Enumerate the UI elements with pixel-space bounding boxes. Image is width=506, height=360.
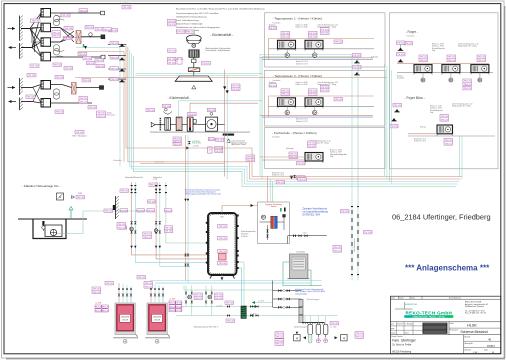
svg-text:TW 120: TW 120 <box>96 29 104 31</box>
svg-text:TW 120: TW 120 <box>65 28 73 30</box>
kitchen risers red/cyan <box>224 70 226 177</box>
svg-text:Name: Name <box>411 297 415 299</box>
svg-text:- Küchenabluft -: - Küchenabluft - <box>210 33 233 37</box>
stand label 1 <box>397 53 406 57</box>
svg-text:ca. 5kW: ca. 5kW <box>169 299 176 301</box>
valves on 45C lines <box>227 305 230 308</box>
label z6 fan <box>207 108 216 112</box>
svg-text:(Einzelkühlgeräte: (Einzelkühlgeräte <box>330 153 348 156</box>
svg-text:Restaurant: Restaurant <box>107 114 116 117</box>
svg-text:- Stellan -: - Stellan - <box>270 205 278 208</box>
svg-text:TW 120: TW 120 <box>104 29 112 31</box>
svg-text:Heizen 60 / 50°C: Heizen 60 / 50°C <box>414 139 427 141</box>
svg-text:Index: Index <box>484 349 488 351</box>
label z4 <box>173 143 182 147</box>
svg-text:TW 120: TW 120 <box>173 144 181 146</box>
svg-text:TW 120: TW 120 <box>31 66 39 68</box>
wall label 3 <box>117 223 126 230</box>
bundle label 1 <box>110 42 119 46</box>
AHU1 top duct from box1 <box>51 12 104 14</box>
label AHU2 top2 <box>55 76 64 80</box>
section box Kochschule <box>265 128 386 169</box>
svg-text:Kühlen ca. 55/45: Kühlen ca. 55/45 <box>296 84 308 86</box>
svg-text:Heizen ca. 5 kW: Heizen ca. 5 kW <box>430 106 442 108</box>
label AHU2 left <box>26 95 35 99</box>
Kaminofen base <box>288 278 310 280</box>
ground line <box>18 218 87 220</box>
Buero piping <box>408 133 437 135</box>
svg-text:TW 120: TW 120 <box>227 321 235 323</box>
svg-text:Schema Bestand: Schema Bestand <box>460 330 487 334</box>
Kochschule piping <box>260 156 305 158</box>
label duct3 <box>109 29 118 33</box>
svg-text:TW 120: TW 120 <box>175 310 183 312</box>
unit label pair <box>281 89 290 96</box>
expansion vessel 1 (tall) <box>308 324 313 343</box>
svg-text:TW 121: TW 121 <box>420 60 428 62</box>
rl8 <box>143 232 152 239</box>
T2 right label <box>321 85 330 92</box>
label AHU2 r <box>79 97 88 104</box>
svg-text:TW 120: TW 120 <box>111 43 119 45</box>
right ref label <box>355 332 364 339</box>
AHU1 heat exchanger box 1 <box>41 9 51 18</box>
wall hatching lower-2 <box>20 98 23 111</box>
AHU1 cyan exit line <box>76 48 120 167</box>
AHU2 supply duct <box>51 85 72 88</box>
fan coil unit <box>305 98 324 109</box>
AHU1 heat exchanger box 4 <box>41 52 51 61</box>
svg-text:TW 120: TW 120 <box>202 63 210 65</box>
Foyer unit label <box>447 55 456 62</box>
pump label A <box>194 293 203 300</box>
svg-text:TW 120: TW 120 <box>65 68 73 70</box>
svg-text:TW 120: TW 120 <box>86 27 94 29</box>
svg-text:TW 120: TW 120 <box>187 32 195 34</box>
AHU1 green fitting <box>83 44 84 47</box>
svg-text:TW 120: TW 120 <box>188 114 196 116</box>
svg-text:nachspeist Anlg: nachspeist Anlg <box>295 292 307 295</box>
Foyer fan coil <box>414 65 433 75</box>
T1 label r2 <box>334 40 343 44</box>
label z3 <box>173 137 182 144</box>
green feeder arrows left <box>252 302 273 304</box>
stand 4 <box>391 118 397 121</box>
zuluft fan box <box>206 117 218 131</box>
svg-text:TW 120: TW 120 <box>364 232 372 234</box>
svg-text:Fussboden: Fussboden <box>407 36 415 38</box>
black valve on bus <box>293 175 296 178</box>
svg-text:Heizkörper: Heizkörper <box>286 148 294 150</box>
svg-text:12x1: 12x1 <box>303 233 307 235</box>
tank heating coil (pink) <box>219 254 227 261</box>
arrows on green lines <box>253 305 256 308</box>
manifold label A <box>275 332 284 339</box>
manifold sight glasses <box>299 300 303 323</box>
svg-text:TW 120: TW 120 <box>148 201 156 203</box>
svg-text:Heizung: Heizung <box>397 76 403 78</box>
svg-text:Kühlen ca. 3 kW: Kühlen ca. 3 kW <box>430 108 442 110</box>
svg-text:Heizung: Heizung <box>420 127 426 129</box>
svg-text:- Foyer Büro -: - Foyer Büro - <box>405 96 425 100</box>
svg-text:TW 120: TW 120 <box>56 77 64 79</box>
stand T1 <box>354 60 360 63</box>
dense text cell (dark) <box>423 323 448 334</box>
svg-text:DN80: DN80 <box>78 193 82 195</box>
svg-text:TW 121: TW 121 <box>215 151 223 153</box>
svg-text:TW 121: TW 121 <box>168 24 176 26</box>
unit rail gray <box>269 105 375 107</box>
bundle stands (black triangles) <box>119 44 125 82</box>
AHU1 heat exchanger box 3 <box>41 38 51 47</box>
svg-text:TW 120: TW 120 <box>219 238 227 240</box>
svg-text:TW 121: TW 121 <box>334 250 342 252</box>
Kochschule fan coil <box>305 153 324 164</box>
fire damper with actuator <box>188 68 200 72</box>
small sensor box right of cooler <box>193 120 196 124</box>
duct mesh AHU1 <box>21 13 41 57</box>
svg-text:ca. 5 kW: ca. 5 kW <box>193 146 199 148</box>
green line label 2 <box>226 319 235 323</box>
manifold label C <box>330 322 339 326</box>
svg-text:TW 120: TW 120 <box>353 55 361 57</box>
svg-text:TW 120: TW 120 <box>28 75 36 77</box>
tank top pipe to verbruehschutz <box>222 206 258 214</box>
hebe label <box>76 196 85 200</box>
svg-text:mit Legionellenschaltung: mit Legionellenschaltung <box>303 210 329 213</box>
label Tafelwasser <box>97 111 106 118</box>
svg-text:TW 121: TW 121 <box>145 286 153 288</box>
svg-text:TW 120: TW 120 <box>111 68 119 70</box>
AHU1 duct end box <box>101 35 105 39</box>
rl2 <box>137 209 145 213</box>
riser pair kitchen-zuluft x185.5/188 <box>185 135 187 281</box>
T2 label r2 <box>334 98 343 102</box>
svg-text:4: 4 <box>343 336 345 340</box>
exhaust air arrow out <box>9 46 17 49</box>
section box Tagungsraum 1 <box>265 13 386 67</box>
Kaminofen green loop piping <box>283 262 311 286</box>
left green feeders 45C <box>176 306 273 308</box>
heat exchanger green (Waermepumpe) <box>241 306 246 318</box>
svg-text:TW 121: TW 121 <box>309 36 317 38</box>
riser pumps <box>130 227 134 231</box>
label TW08 <box>31 19 41 23</box>
riser label T1b <box>353 66 362 70</box>
svg-text:TW 120: TW 120 <box>353 67 361 69</box>
svg-text:TW 120: TW 120 <box>298 179 306 181</box>
svg-text:2000-3000: 2000-3000 <box>121 317 129 319</box>
svg-text:TW 120: TW 120 <box>208 110 216 112</box>
valves on risers x352/358 <box>351 206 360 275</box>
tank feet <box>210 275 212 279</box>
svg-text:TW 120: TW 120 <box>54 65 62 67</box>
b2 l5 <box>168 309 176 313</box>
svg-text:TW 120: TW 120 <box>341 211 349 213</box>
bus band left (salmon/cyan/green) stepping down at x244-252 <box>113 44 462 187</box>
label k1 <box>177 30 186 34</box>
pump outlet green loop <box>57 211 148 234</box>
row3 small cells <box>391 325 423 327</box>
kitchen riser arrows <box>223 86 226 89</box>
AHU1 lower duct end <box>101 55 105 59</box>
b1 l3 <box>94 309 102 313</box>
green line label 1 <box>225 301 234 305</box>
rl5 <box>148 200 156 204</box>
b2 l6 <box>175 309 183 313</box>
svg-text:Regelung: Regelung <box>269 24 276 26</box>
b1 l2 <box>101 305 109 309</box>
Verbruehschutz pump <box>261 215 265 219</box>
svg-text:TW 120: TW 120 <box>123 7 131 9</box>
arrow on cyan line <box>84 46 87 49</box>
tank bottom pipe <box>221 275 223 281</box>
label z0 <box>162 104 171 108</box>
expansion vessel 3 <box>323 324 328 337</box>
hebe wall <box>116 196 119 219</box>
svg-text:TW 121: TW 121 <box>276 344 284 346</box>
svg-text:TW 120: TW 120 <box>79 54 87 56</box>
svg-text:06_2184 Ufertinger, Friedberg: 06_2184 Ufertinger, Friedberg <box>392 213 491 222</box>
svg-text:TW 120: TW 120 <box>226 303 234 305</box>
svg-text:TW 121: TW 121 <box>93 292 101 294</box>
svg-text:TW 120: TW 120 <box>147 210 155 212</box>
svg-text:TW 120: TW 120 <box>277 182 285 184</box>
svg-text:Wärmepumpe bei GW - 8/4 °C: Wärmepumpe bei GW - 8/4 °C <box>194 326 219 328</box>
tank label 4 <box>218 262 228 266</box>
Foyer unit label <box>477 55 486 62</box>
svg-text:TW 120: TW 120 <box>269 85 277 87</box>
stand 3 <box>394 109 400 112</box>
tank connection stubs right <box>236 215 238 270</box>
row4 right cells <box>463 335 465 354</box>
label z1 <box>146 109 155 113</box>
Foyer label b <box>463 87 472 91</box>
duct hourglass curves <box>55 15 64 20</box>
boiler 2 feed pipes <box>150 283 165 303</box>
Buero label pair 2 <box>444 139 453 146</box>
label below AHU1 b <box>53 63 62 67</box>
svg-text:TW 120: TW 120 <box>106 283 114 285</box>
rl7 <box>164 226 173 233</box>
fan motor circle <box>192 44 196 48</box>
title block outer <box>391 296 501 354</box>
svg-text:ca. 7 g/m: ca. 7 g/m <box>330 326 337 328</box>
short salmon line Kuechen 163.5 <box>140 163 225 165</box>
outside air arrow in <box>8 27 16 30</box>
heat exchanger red/blue <box>271 216 274 228</box>
svg-text:TW 120: TW 120 <box>175 306 183 308</box>
long salmon supply line y77.5 <box>75 77 387 79</box>
label below AHU1 <box>30 64 39 68</box>
svg-text:Fussboden: Fussboden <box>273 80 281 82</box>
discharge green pipe with arrow <box>70 210 72 220</box>
vessel circles magenta <box>317 339 321 343</box>
svg-text:EDV - Rezeption: EDV - Rezeption <box>72 135 86 138</box>
wall hatching upper-2 <box>20 43 23 59</box>
svg-text:Kühlen 12 / 16°C: Kühlen 12 / 16°C <box>414 141 427 143</box>
pump circle <box>285 53 289 57</box>
label k3 <box>168 49 177 53</box>
duct mesh AHU1 right <box>51 28 75 43</box>
Kaminofen right green pipes to sections <box>311 285 322 287</box>
svg-text:Sollwert Heizen / Stellenregle: Sollwert Heizen / Stellenregler <box>176 22 203 25</box>
AHU2 lower duct <box>51 102 93 104</box>
Foyer pump <box>478 78 482 82</box>
bundle branch stubs left <box>108 44 126 79</box>
svg-text:ca. 5kW: ca. 5kW <box>95 303 102 305</box>
T1 return pair to risers <box>260 55 352 177</box>
zuluft supply risers cyan salmon <box>179 101 262 117</box>
boiler 1 feed pipes <box>118 283 133 303</box>
stand risers pipes <box>400 45 402 48</box>
svg-text:REKO-TECH GmbH: REKO-TECH GmbH <box>406 310 453 315</box>
label duct <box>85 26 94 30</box>
Foyer unit label <box>419 55 428 62</box>
svg-text:TW 121: TW 121 <box>356 337 364 339</box>
svg-text:TW 120: TW 120 <box>331 323 339 325</box>
stand label top <box>397 41 406 45</box>
section box Tagungsraum 2 <box>265 70 386 126</box>
svg-text:TW 120: TW 120 <box>27 97 35 99</box>
svg-text:TW 120: TW 120 <box>96 60 104 62</box>
reference square 4 <box>57 193 64 200</box>
tank to heat pump verticals <box>239 262 244 306</box>
bundle label 2 <box>110 56 119 60</box>
Verbruehschutz box <box>258 202 290 244</box>
Verbruehschutz internal pipes <box>260 221 272 223</box>
unit label pair <box>309 31 318 38</box>
svg-text:TW 120: TW 120 <box>390 126 398 128</box>
Koch label 3 <box>297 162 306 166</box>
exhaust air arrow out 2 <box>9 100 17 103</box>
svg-text:TW 120: TW 120 <box>177 32 185 34</box>
outside air arrow in 2 <box>8 86 16 89</box>
svg-text:TW 120: TW 120 <box>137 210 145 212</box>
bus risers Buero x459-462 <box>459 136 461 177</box>
Foyer TW200 label <box>463 79 472 86</box>
pump circle <box>313 53 317 57</box>
silencer (dark box) <box>189 50 199 58</box>
riser pair A salmon+cyan x131/135 <box>132 182 208 255</box>
svg-text:TW 120: TW 120 <box>397 43 405 45</box>
svg-text:2000-3000: 2000-3000 <box>153 317 161 319</box>
kitchen hood <box>175 72 212 82</box>
cyan bottom bus <box>150 280 322 282</box>
zuluft heater box (red element) <box>176 117 182 131</box>
svg-text:- Tagungsraum 1 - (Heizen / Kü: - Tagungsraum 1 - (Heizen / Kühlen) <box>273 17 323 21</box>
Foyer fan coil <box>470 65 489 75</box>
reference square right <box>341 335 347 341</box>
svg-text:4: 4 <box>296 336 298 340</box>
svg-text:03.10.07: 03.10.07 <box>397 324 403 326</box>
label TW30 top <box>79 9 88 13</box>
svg-text:TW 120: TW 120 <box>84 58 92 60</box>
svg-text:TW 121: TW 121 <box>308 146 316 148</box>
svg-text:Kühlen ca. 55/45: Kühlen ca. 55/45 <box>296 26 308 28</box>
b1 l1 <box>94 305 102 309</box>
fan coil unit <box>305 40 324 51</box>
bundle label 3 <box>110 67 119 71</box>
label k7 <box>232 84 241 91</box>
svg-text:TW 120: TW 120 <box>405 43 413 45</box>
svg-text:TW 120: TW 120 <box>101 310 109 312</box>
Foyer fan coil <box>441 65 460 75</box>
AHU1 fan pair upper <box>53 15 59 25</box>
svg-text:Frost-, Filterüberwachung: Frost-, Filterüberwachung <box>176 19 199 22</box>
bus risers Foyer x384-392 <box>385 64 392 184</box>
svg-text:Heizen 45 / 35°C: Heizen 45 / 35°C <box>296 61 309 63</box>
tick marks top of risers <box>131 185 167 193</box>
REKO-TECH logo graphic <box>395 302 418 309</box>
sect label a <box>269 26 277 30</box>
svg-text:Folg.: Folg. <box>432 50 436 52</box>
label TW40 <box>168 19 177 26</box>
svg-text:TW 120: TW 120 <box>87 63 95 65</box>
b2 l2 <box>175 301 183 305</box>
zuluft intake triangle <box>151 122 155 127</box>
Foyer pump <box>421 78 425 82</box>
tank label 1 <box>218 225 228 229</box>
svg-text:070013: 070013 <box>487 346 495 348</box>
duct mesh AHU2 <box>21 85 41 104</box>
logo area separator <box>391 321 501 323</box>
tank label 2 <box>218 237 228 241</box>
svg-text:TW 120: TW 120 <box>120 210 128 212</box>
svg-text:TW 121: TW 121 <box>309 94 317 96</box>
svg-text:4668 Aachach (Ximixel): 4668 Aachach (Ximixel) <box>465 305 484 308</box>
svg-text:TW 120: TW 120 <box>175 303 183 305</box>
svg-text:- Fäkalien Hebeanlage KG -: - Fäkalien Hebeanlage KG - <box>22 184 60 188</box>
small pump symbol right <box>72 196 75 199</box>
svg-text:TW 121: TW 121 <box>321 33 329 35</box>
label z9 <box>246 155 255 162</box>
svg-text:TW 120: TW 120 <box>83 80 91 82</box>
boiler 2 (Kessel) <box>145 303 169 339</box>
label TW row <box>103 28 112 32</box>
label mid <box>52 31 61 38</box>
Kaminofen gray device <box>289 254 308 279</box>
svg-text:TW 121: TW 121 <box>276 337 284 339</box>
label vent top <box>122 6 131 10</box>
manifold valve rows <box>273 289 302 309</box>
expansion vessel 2 <box>316 324 321 337</box>
svg-text:TW 121: TW 121 <box>247 160 255 162</box>
label z7 <box>208 138 216 142</box>
svg-text:ca. 45 °C: ca. 45 °C <box>216 305 224 307</box>
AHU1 heat exchanger box 2 <box>41 23 51 32</box>
AHU1 duct sensor circle <box>89 33 93 37</box>
pump circle <box>313 110 317 114</box>
svg-text:TW 121: TW 121 <box>53 36 61 38</box>
riser pair B x156/160 <box>156 182 208 259</box>
label below koch <box>297 176 306 180</box>
Foyer pump <box>449 78 453 82</box>
label AHU2 top3 <box>82 79 91 83</box>
svg-text:TW 121: TW 121 <box>118 227 126 229</box>
label low b <box>96 65 105 69</box>
svg-text:Name: Name <box>405 332 409 334</box>
svg-text:TW 121: TW 121 <box>195 298 203 300</box>
svg-text:DVGW 551 / 554: DVGW 551 / 554 <box>303 214 321 216</box>
rl6 <box>120 226 128 230</box>
valve train right of box <box>288 235 327 237</box>
label k6 <box>202 62 211 66</box>
stand T1b <box>354 72 360 75</box>
vertical 2-box <box>208 147 212 153</box>
svg-text:TW 120: TW 120 <box>216 140 224 142</box>
Buero label pair <box>440 115 449 122</box>
